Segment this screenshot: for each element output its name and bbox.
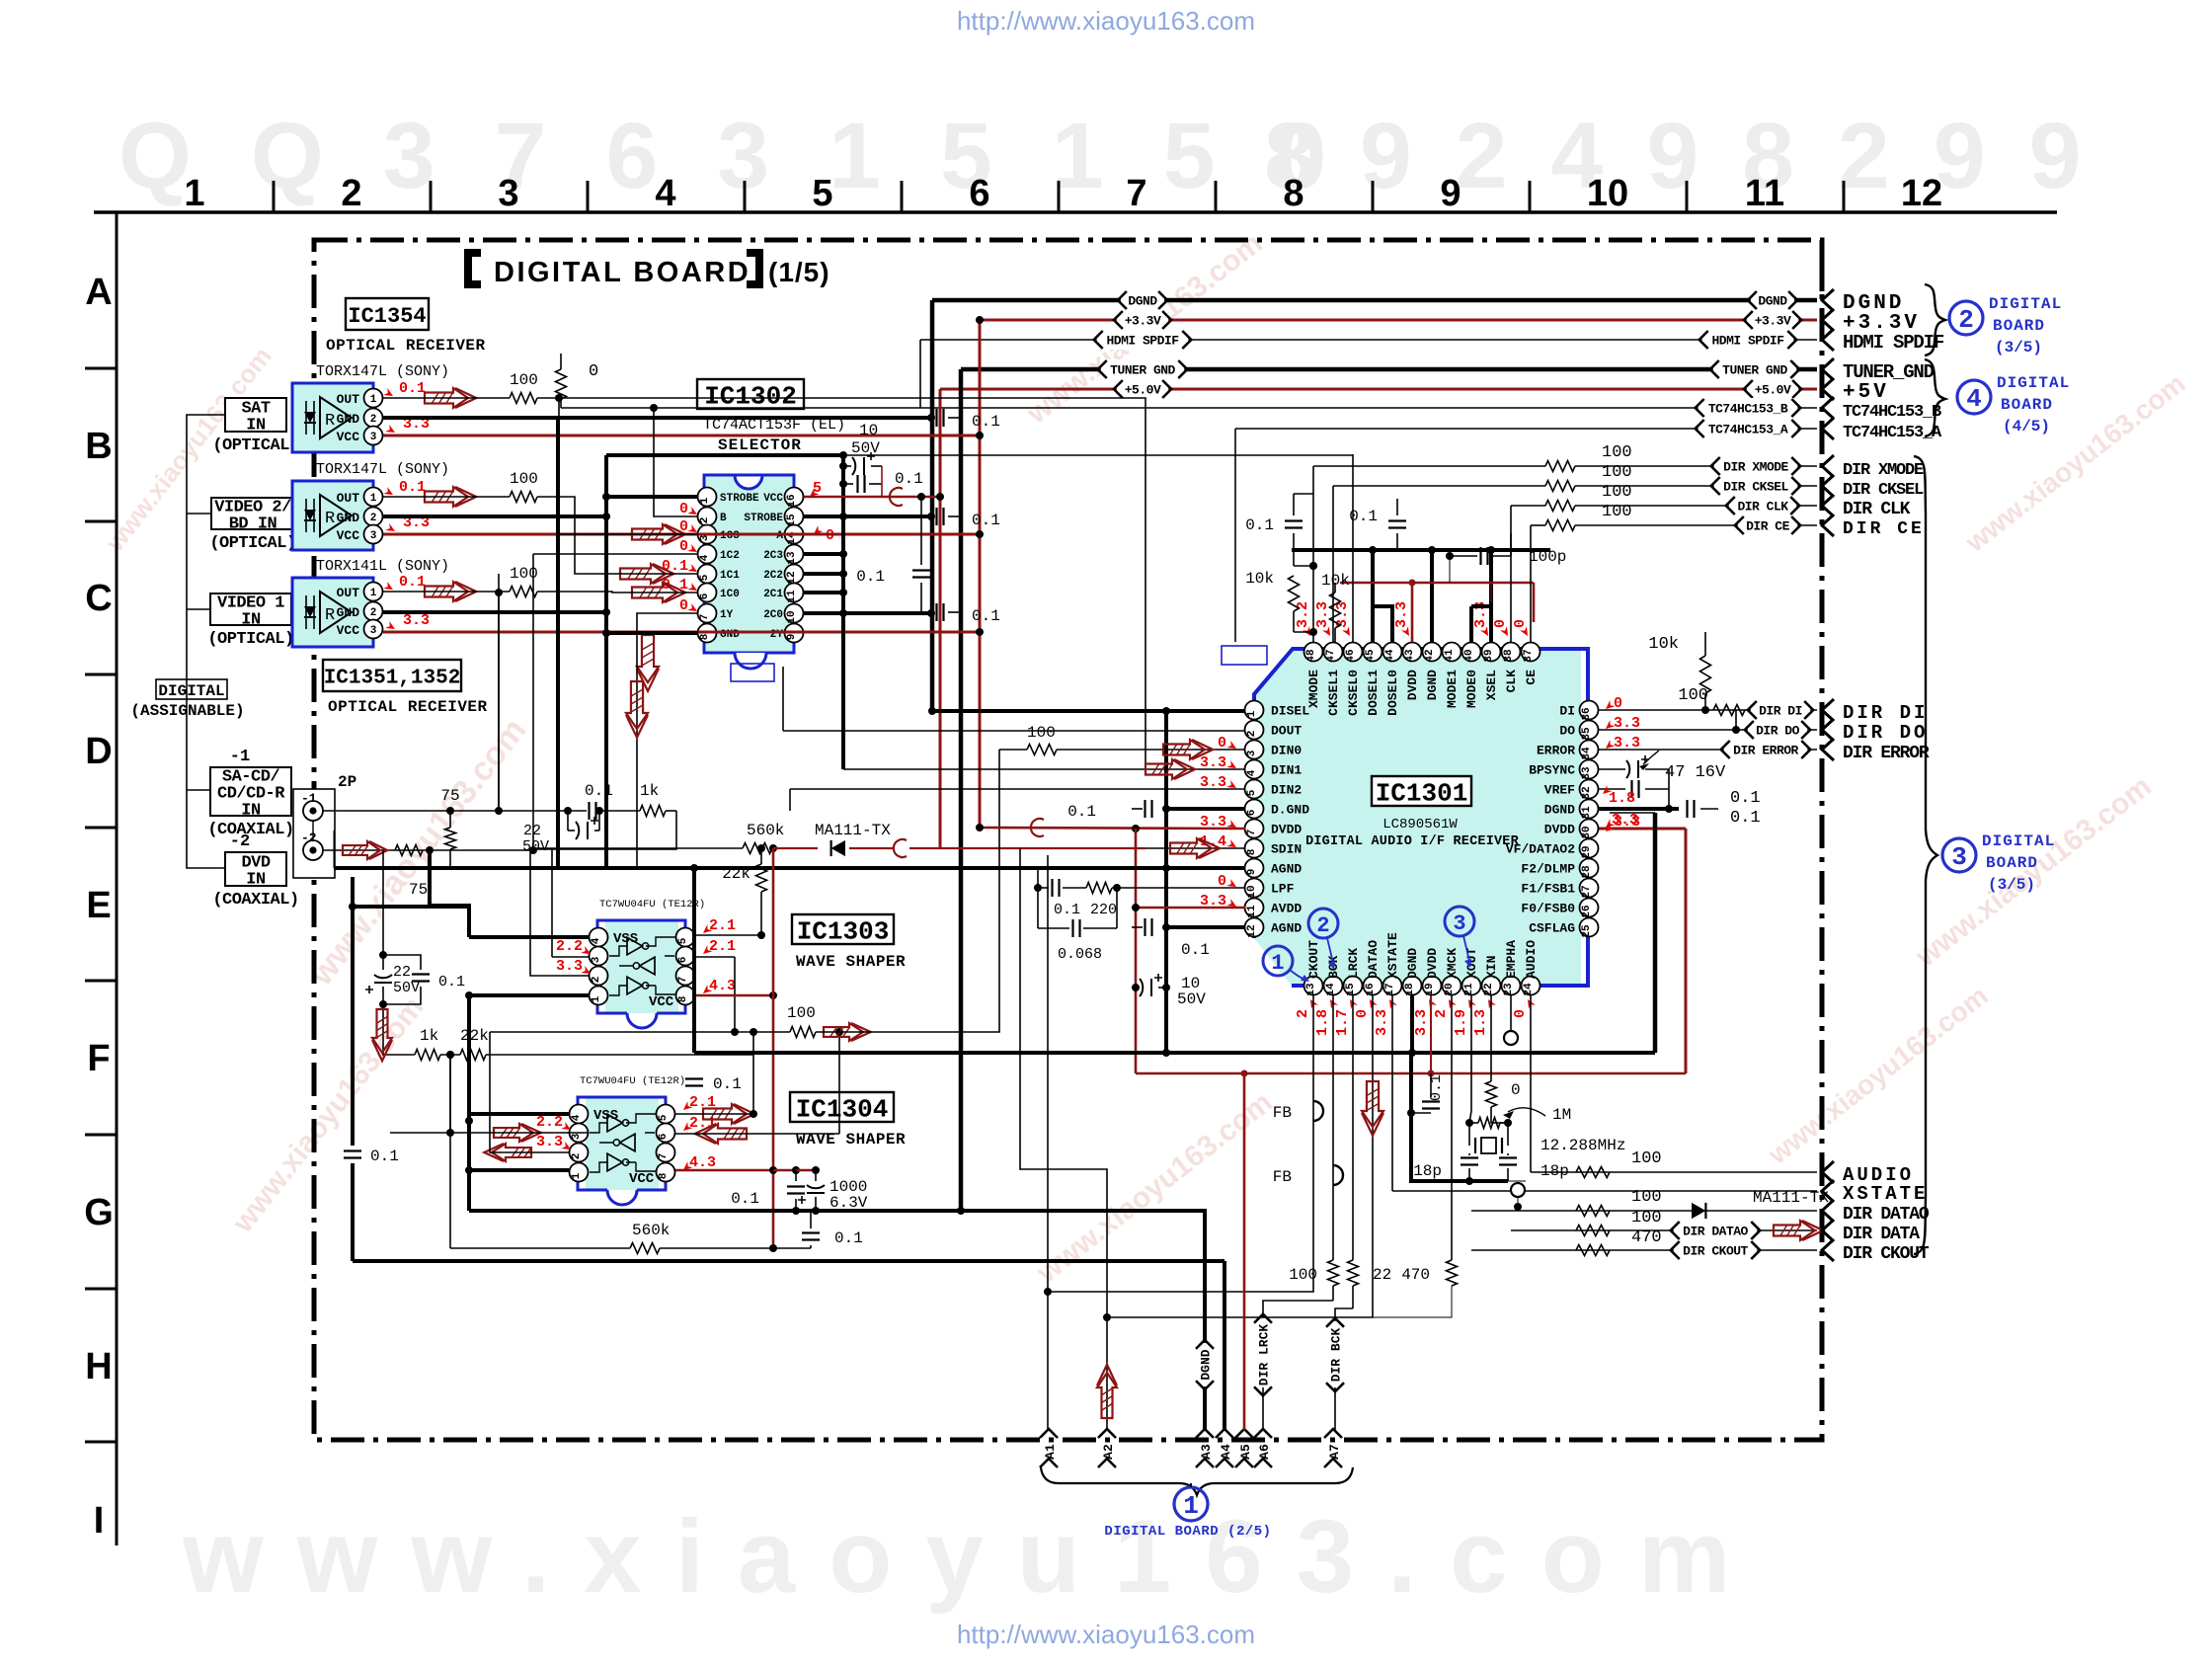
capacitor 22 50V below <box>567 811 569 831</box>
wire DIR XMODE with resistor 100 <box>1313 465 1545 467</box>
svg-text:75: 75 <box>440 787 459 805</box>
svg-text:DIR DATA: DIR DATA <box>1843 1225 1920 1244</box>
svg-text:2: 2 <box>341 173 361 214</box>
svg-text:8: 8 <box>1283 173 1303 214</box>
svg-text:DIGITAL: DIGITAL <box>1997 374 2070 392</box>
ferrite bead FB2 <box>1333 1165 1343 1185</box>
capacitor 0.1 at IC1304 VCC <box>787 1187 805 1194</box>
svg-text:0.1: 0.1 <box>1245 516 1274 534</box>
wire IC1304 pin8 red <box>675 1169 773 1172</box>
svg-text:VCC: VCC <box>649 994 674 1010</box>
svg-text:-1: -1 <box>301 791 317 806</box>
resistor 10k pullup at DIR DI <box>1700 656 1711 693</box>
svg-text:470: 470 <box>1631 1228 1662 1247</box>
svg-text:0.1: 0.1 <box>731 1190 759 1208</box>
wire receiver3 GND row <box>383 610 606 614</box>
IC1301 pins top 48-37 <box>1304 643 1323 662</box>
wire coax -1 row <box>323 810 568 812</box>
svg-text:9: 9 <box>1246 869 1258 876</box>
resistor on coax -2 row <box>395 845 423 856</box>
svg-text:46: 46 <box>1345 649 1357 662</box>
svg-text:17: 17 <box>1384 983 1396 995</box>
wire DVDD pin19 red drop <box>1430 995 1432 1073</box>
svg-text:3.3: 3.3 <box>1413 1009 1430 1036</box>
svg-text:DIR ERROR: DIR ERROR <box>1843 744 1930 763</box>
svg-text:100: 100 <box>1027 724 1056 742</box>
wire AGND pin12 thick <box>1166 925 1245 929</box>
svg-text:HDMI SPDIF: HDMI SPDIF <box>1843 332 1944 354</box>
svg-text:DVDD: DVDD <box>1544 823 1575 837</box>
svg-text:3: 3 <box>1951 842 1967 872</box>
wire into IC1304 pin3 <box>450 1055 589 1133</box>
svg-text:(ASSIGNABLE): (ASSIGNABLE) <box>130 702 244 720</box>
svg-text:33: 33 <box>1581 766 1593 780</box>
svg-text:0: 0 <box>1614 695 1622 712</box>
svg-text:A1: A1 <box>1043 1444 1058 1460</box>
svg-text:4: 4 <box>1246 769 1258 776</box>
svg-text:AUDIO: AUDIO <box>1524 940 1539 979</box>
node DIR CE terminal <box>1822 515 1834 536</box>
svg-text:7: 7 <box>1246 830 1258 836</box>
svg-text:7: 7 <box>1126 173 1146 214</box>
connector A1 <box>1040 1429 1058 1438</box>
svg-text:23: 23 <box>1503 983 1515 996</box>
IC1303 wave shaper body <box>605 920 678 1013</box>
svg-text:CKOUT: CKOUT <box>1306 940 1321 979</box>
svg-text:VCC: VCC <box>763 493 783 505</box>
svg-text:A7: A7 <box>1327 1444 1342 1460</box>
wire out IC1304 pin2 feedback loop <box>490 1032 569 1152</box>
svg-text:MODE1: MODE1 <box>1445 670 1460 708</box>
connector A2 <box>1098 1429 1116 1438</box>
arrow out receiver1 <box>425 388 468 408</box>
svg-text:10k: 10k <box>1648 635 1679 654</box>
wire thick bottom bus y1066 <box>694 1051 1655 1055</box>
svg-text:XSTATE: XSTATE <box>1843 1183 1928 1205</box>
svg-text:2: 2 <box>1433 1009 1450 1018</box>
svg-text:BD IN: BD IN <box>229 515 277 534</box>
node TUNER_GND terminal <box>1822 358 1834 380</box>
wire receiver1 VCC row red <box>383 435 980 437</box>
svg-text:XSTATE: XSTATE <box>1385 932 1400 979</box>
red vertical x1150 <box>1135 829 1138 1073</box>
svg-text:DGND: DGND <box>1425 670 1440 700</box>
svg-text:0.1: 0.1 <box>662 558 688 575</box>
svg-text:(4/5): (4/5) <box>2003 418 2050 436</box>
arrow out IC1304 pin5 <box>703 1104 747 1124</box>
capacitor 47 16V at BPSYNC <box>1598 768 1625 770</box>
arrow down below IC1302 <box>637 635 659 682</box>
wire thick pin18 to crystal gnd <box>1409 1053 1413 1113</box>
svg-text:5: 5 <box>699 574 711 581</box>
svg-text:DIGITAL AUDIO I/F RECEIVER: DIGITAL AUDIO I/F RECEIVER <box>1305 834 1520 849</box>
connector A5 <box>1235 1429 1253 1438</box>
svg-text:0: 0 <box>1354 1009 1371 1018</box>
node DIR CKSEL terminal <box>1822 475 1834 497</box>
label box IC1301 <box>1372 776 1471 806</box>
svg-text:16: 16 <box>786 494 798 507</box>
wire receiver1 GND row <box>383 416 931 420</box>
wire D.GND thick with cap <box>1166 807 1245 811</box>
IC1301 body <box>1254 649 1581 986</box>
IC1301 pins bottom 13-24 <box>1304 977 1323 995</box>
svg-text:0.1: 0.1 <box>972 512 1000 529</box>
svg-text:DIR DI: DIR DI <box>1759 704 1802 719</box>
svg-text:TC74HC153_A: TC74HC153_A <box>1708 423 1788 437</box>
svg-text:DIR CLK: DIR CLK <box>1737 500 1788 515</box>
svg-text:75: 75 <box>409 881 428 899</box>
wire DIR DATAO row with diode MA111-TX <box>1471 1210 1817 1212</box>
svg-text:100: 100 <box>1289 1266 1317 1284</box>
svg-text:100: 100 <box>1631 1149 1662 1168</box>
wire TC74HC153_A <box>1235 428 1817 430</box>
arrow into IC1302 pin6 <box>632 583 677 602</box>
svg-text:7: 7 <box>677 977 689 984</box>
wire thick IC1303 pin1 <box>469 993 589 997</box>
svg-text:31: 31 <box>1581 806 1593 820</box>
wire OUT2 to IC1302 pin5 <box>537 497 698 574</box>
svg-text:7: 7 <box>658 1153 670 1160</box>
svg-text:8: 8 <box>658 1172 670 1179</box>
capacitor 10 50V below pin12 <box>1140 979 1143 996</box>
svg-text:1Y: 1Y <box>720 609 734 621</box>
wire 560k bottom row <box>449 1055 451 1248</box>
wire IC1302 pin7 1Y output <box>637 613 698 868</box>
svg-text:8: 8 <box>699 633 711 640</box>
svg-text:VREF: VREF <box>1544 783 1575 798</box>
svg-text:VCC: VCC <box>629 1171 655 1187</box>
svg-text:892498299: 892498299 <box>1264 104 2125 208</box>
svg-text:12: 12 <box>1901 173 1942 214</box>
svg-text:20: 20 <box>1444 983 1456 995</box>
arrow up on A2 <box>1097 1373 1117 1418</box>
IC1301 pins left 1-12 <box>1245 701 1264 720</box>
callout 2 at pin14 <box>1308 909 1338 938</box>
wire A1 vertical <box>1047 855 1049 1430</box>
node +5V terminal <box>1822 378 1834 400</box>
svg-text:100p: 100p <box>1529 548 1566 566</box>
svg-text:DOSEL0: DOSEL0 <box>1385 670 1400 716</box>
wire red top y590 <box>1340 582 1534 585</box>
svg-text:0.1: 0.1 <box>399 574 426 591</box>
arrow DIN1 <box>1145 759 1187 779</box>
svg-text:1: 1 <box>571 1172 583 1179</box>
svg-text:10: 10 <box>786 610 798 623</box>
optical receiver IC1354 TORX147L <box>292 383 373 452</box>
wire pin24 AUDIO down <box>1530 995 1532 1172</box>
svg-text:6: 6 <box>658 1134 670 1141</box>
svg-text:LPF: LPF <box>1271 882 1295 897</box>
svg-text:10: 10 <box>859 422 878 439</box>
svg-text:3.3: 3.3 <box>1314 601 1331 628</box>
svg-text:GND: GND <box>337 511 360 525</box>
svg-text:TORX147L (SONY): TORX147L (SONY) <box>316 363 449 380</box>
svg-text:(OPTICAL): (OPTICAL) <box>207 630 293 649</box>
svg-text:(OPTICAL): (OPTICAL) <box>212 436 298 455</box>
capacitor 22 50V with 0.1 at x388 <box>382 850 384 955</box>
svg-text:5: 5 <box>658 1114 670 1121</box>
svg-text:2: 2 <box>1246 731 1258 738</box>
svg-text:0: 0 <box>589 362 598 381</box>
input box VIDEO 1 IN (OPTICAL) <box>210 594 291 625</box>
svg-text:CKSEL0: CKSEL0 <box>1346 670 1361 716</box>
callout 4 DIGITAL BOARD (4/5) <box>1957 380 1991 414</box>
svg-text:3.3: 3.3 <box>1614 814 1640 831</box>
wire +5.0V vertical bus x952 <box>939 389 942 849</box>
svg-text:WAVE SHAPER: WAVE SHAPER <box>796 953 906 971</box>
svg-text:100: 100 <box>1602 463 1632 482</box>
svg-text:0.1: 0.1 <box>438 974 465 990</box>
svg-text:1k: 1k <box>640 782 659 800</box>
svg-text:STROBE: STROBE <box>720 493 759 505</box>
svg-text:10: 10 <box>1587 173 1628 214</box>
svg-text:DGND: DGND <box>1128 294 1157 309</box>
svg-text:30: 30 <box>1581 826 1593 838</box>
svg-text:100: 100 <box>1631 1209 1662 1227</box>
svg-text:B: B <box>720 513 727 524</box>
svg-text:19: 19 <box>1424 983 1436 995</box>
svg-text:3: 3 <box>370 530 377 542</box>
IC1301 pins right 36-25 <box>1580 701 1599 720</box>
wire thick IC1304 pin4 pin1 <box>469 1112 569 1116</box>
svg-text:3.3: 3.3 <box>403 612 430 629</box>
svg-text:-2: -2 <box>230 832 250 851</box>
svg-text:(COAXIAL): (COAXIAL) <box>212 891 298 910</box>
svg-text:1.3: 1.3 <box>1472 1009 1489 1036</box>
wire thick top bus y557 <box>1292 548 1550 552</box>
wire pin21 XOUT down to crystal <box>1469 995 1471 1123</box>
svg-text:0: 0 <box>1512 619 1529 628</box>
svg-text:10: 10 <box>1246 885 1258 898</box>
svg-text:VF/DATAO2: VF/DATAO2 <box>1506 842 1575 857</box>
svg-text:100: 100 <box>510 470 538 488</box>
wire DIR CLK with resistor 100 <box>1511 505 1545 507</box>
wire DIN2 row <box>790 788 1245 790</box>
svg-text:0.1: 0.1 <box>1054 902 1080 918</box>
svg-text:1.8: 1.8 <box>1609 790 1635 807</box>
wire +3.3V vertical bus x992 <box>979 320 982 828</box>
wire TUNER GND vertical bus x973 <box>959 369 964 1211</box>
svg-text:6: 6 <box>1246 810 1258 817</box>
svg-text:+3.3V: +3.3V <box>1755 314 1791 329</box>
svg-text:470: 470 <box>1401 1266 1430 1284</box>
svg-text:(3/5): (3/5) <box>1988 876 2035 894</box>
ruler left line <box>116 212 118 1545</box>
svg-text:DIR XMODE: DIR XMODE <box>1723 460 1788 475</box>
svg-text:44: 44 <box>1384 649 1396 663</box>
svg-text:2: 2 <box>1295 1009 1311 1018</box>
wire coax thick ground <box>334 866 1038 870</box>
svg-text:9: 9 <box>1440 173 1461 214</box>
capacitor 0.1 right of IC1302 <box>912 571 930 578</box>
wire pin22 XIN down <box>1490 995 1492 1081</box>
svg-text:0.1: 0.1 <box>972 413 1000 431</box>
svg-text:2.1: 2.1 <box>709 938 736 955</box>
svg-text:H: H <box>85 1346 112 1387</box>
svg-text:13: 13 <box>786 551 798 565</box>
svg-text:560k: 560k <box>747 822 784 839</box>
vertical tag DIR LRCK <box>1253 1317 1273 1392</box>
svg-text:0.068: 0.068 <box>1058 946 1102 963</box>
svg-text:36: 36 <box>1581 707 1593 720</box>
input box SAT IN (OPTICAL) <box>225 398 286 432</box>
svg-text:IC1303: IC1303 <box>797 916 890 946</box>
IC1302 pins left 1-8 <box>698 488 717 507</box>
svg-text:4.3: 4.3 <box>689 1154 716 1171</box>
wire A4 thick <box>1223 1261 1226 1430</box>
svg-text:BPSYNC: BPSYNC <box>1529 763 1575 778</box>
capacitor 0.1 top left <box>1285 521 1303 528</box>
wire DGND vertical bus x944 <box>930 300 935 711</box>
svg-text:(1/5): (1/5) <box>768 257 830 287</box>
svg-text:DIR DO: DIR DO <box>1843 722 1928 744</box>
svg-text:DOSEL1: DOSEL1 <box>1366 670 1381 716</box>
svg-text:TUNER_GND: TUNER_GND <box>1843 361 1935 383</box>
svg-text:0.1: 0.1 <box>399 479 426 496</box>
wire selector feed x540 <box>532 554 534 850</box>
svg-text:32: 32 <box>1581 786 1593 799</box>
svg-text:(OPTICAL): (OPTICAL) <box>209 534 295 553</box>
svg-text:TC74HC153_B: TC74HC153_B <box>1708 402 1788 417</box>
svg-text:45: 45 <box>1365 649 1377 663</box>
svg-text:3.3: 3.3 <box>536 1134 563 1150</box>
wire thick y918 stub <box>353 905 469 909</box>
node DIR XMODE terminal <box>1822 455 1834 477</box>
svg-text:12: 12 <box>1246 924 1258 937</box>
svg-text:DIR CKSEL: DIR CKSEL <box>1843 481 1924 500</box>
capacitor 0.1 bottom <box>802 1233 820 1240</box>
svg-text:VSS: VSS <box>613 931 638 947</box>
wire DIR CKOUT row <box>1471 1249 1817 1251</box>
svg-text:1: 1 <box>591 995 602 1002</box>
wire IC1303 pin5 pin6 right <box>695 934 761 936</box>
svg-text:VCC: VCC <box>337 528 360 543</box>
svg-text:1: 1 <box>1246 710 1258 717</box>
capacitor at VREF pin32 <box>1598 788 1625 790</box>
wire HDMI SPDIF corner x932 <box>919 340 921 408</box>
brace bottom <box>1041 1467 1353 1495</box>
wire TUNER GND bus <box>961 367 1817 372</box>
ruler row ticks <box>85 367 117 370</box>
resistor 10k #1 <box>1289 576 1300 611</box>
wire thin y461 to pin46 <box>843 454 1353 456</box>
svg-text:TC74HC153_B: TC74HC153_B <box>1843 403 1941 422</box>
svg-text:25: 25 <box>1581 924 1593 938</box>
svg-text:AGND: AGND <box>1271 862 1302 877</box>
wire thick coax shield vertical x357 <box>351 877 355 1146</box>
svg-text:EMPHA: EMPHA <box>1504 940 1519 979</box>
arrow DIN0 <box>1163 740 1205 759</box>
svg-text:34: 34 <box>1581 747 1593 760</box>
svg-text:IC1302: IC1302 <box>704 381 797 411</box>
svg-text:DIN0: DIN0 <box>1271 744 1302 758</box>
svg-text:3: 3 <box>591 956 602 963</box>
wire receiver2 GND row <box>383 515 606 518</box>
svg-text:TORX141L (SONY): TORX141L (SONY) <box>316 558 449 575</box>
svg-text:DGND: DGND <box>1405 948 1420 979</box>
svg-text:47 16V: 47 16V <box>1665 763 1726 782</box>
svg-text:SELECTOR: SELECTOR <box>718 436 802 454</box>
vertical tag DGND <box>1195 1343 1215 1386</box>
wire pin15 LRCK down <box>1352 995 1354 1260</box>
svg-text:DVDD: DVDD <box>1271 823 1302 837</box>
brace group 4 <box>1925 359 1945 436</box>
svg-text:IN: IN <box>241 611 261 630</box>
wire thick vertical x1181 <box>1164 711 1168 1053</box>
wire IC1304 pin5 to box <box>675 1113 753 1115</box>
brace group 3 tall <box>1914 456 1937 1254</box>
IC1302 pins right 9-16 <box>785 488 804 507</box>
svg-text:0.1: 0.1 <box>1730 789 1761 808</box>
capacitor 0.1 in x703 line <box>685 1076 703 1088</box>
arrow into IC1304 pin3 <box>494 1124 533 1142</box>
svg-text:DIR DI: DIR DI <box>1843 702 1928 724</box>
svg-text:0.1: 0.1 <box>1067 803 1096 821</box>
svg-text:www.xiaoyu163.com: www.xiaoyu163.com <box>182 1499 1764 1615</box>
svg-text:BOARD: BOARD <box>1986 854 2038 872</box>
svg-text:DIR DATAO: DIR DATAO <box>1683 1225 1748 1239</box>
capacitor 0.1 at pin18 <box>1430 1073 1432 1096</box>
wire A5 red <box>1243 1073 1246 1430</box>
svg-text:2: 2 <box>699 517 711 524</box>
svg-text:D.GND: D.GND <box>1271 803 1309 818</box>
label box IC1354 <box>346 298 429 330</box>
svg-text:5: 5 <box>677 937 689 944</box>
svg-text:39: 39 <box>1483 649 1495 662</box>
svg-text:GND: GND <box>337 412 360 427</box>
svg-text:XMCK: XMCK <box>1445 948 1460 979</box>
capacitor 100p <box>1450 555 1477 557</box>
svg-text:IC1351,1352: IC1351,1352 <box>324 668 461 690</box>
svg-text:100: 100 <box>787 1004 816 1022</box>
svg-text:TORX147L (SONY): TORX147L (SONY) <box>316 461 449 478</box>
svg-text:6: 6 <box>699 594 711 600</box>
ruler top line <box>94 210 2057 214</box>
svg-text:VSS: VSS <box>593 1108 618 1124</box>
svg-text:4.3: 4.3 <box>709 978 736 994</box>
svg-text:27: 27 <box>1581 885 1593 898</box>
svg-text:MODE0: MODE0 <box>1464 670 1479 708</box>
svg-text:18p: 18p <box>1540 1162 1569 1180</box>
svg-text:50V: 50V <box>522 838 549 855</box>
svg-text:DIN2: DIN2 <box>1271 783 1302 798</box>
wire into IC1303 pin2 <box>530 811 676 976</box>
svg-text:3.3: 3.3 <box>1614 715 1640 732</box>
svg-text:8: 8 <box>677 995 689 1002</box>
svg-text:OUT: OUT <box>337 491 360 506</box>
svg-text:1C2: 1C2 <box>720 550 740 562</box>
svg-text:I: I <box>94 1500 105 1542</box>
resistor 22k vertical <box>756 864 767 892</box>
svg-text:DIGITAL: DIGITAL <box>1989 295 2062 313</box>
svg-text:2C3: 2C3 <box>763 550 783 562</box>
wire IC1302 right bus x854 <box>841 455 845 769</box>
svg-text:2: 2 <box>370 513 377 524</box>
svg-text:XMODE: XMODE <box>1306 670 1321 708</box>
svg-text:CSFLAG: CSFLAG <box>1529 921 1575 936</box>
svg-text:14: 14 <box>1325 983 1337 996</box>
svg-text:LC890561W: LC890561W <box>1382 817 1458 832</box>
wire DIN1 row <box>843 768 1245 770</box>
svg-text:1: 1 <box>370 493 377 505</box>
svg-text:TC7WU04FU (TE12R): TC7WU04FU (TE12R) <box>580 1075 685 1087</box>
wire thick U pins 45 44 <box>1371 550 1375 642</box>
wire thick x565 receiver gnd <box>383 417 558 419</box>
wire DIR DI row <box>1598 709 1817 711</box>
wire receiver2 VCC row red <box>383 533 980 536</box>
wire thick bottom bus y1226 <box>469 1211 1205 1430</box>
wire OUT1 long to DIN1 column <box>559 398 1145 769</box>
